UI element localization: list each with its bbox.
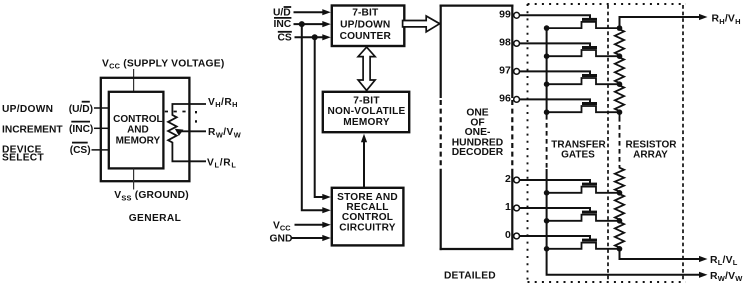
label DEVICE SELECT xyxy=(2,145,44,164)
junction bus 1 xyxy=(544,218,550,224)
decoder output 2 xyxy=(505,173,520,185)
hollow bus arrow counter to decoder xyxy=(403,16,440,32)
wire decoder 0 to gate xyxy=(520,236,590,239)
svg-text:UP/DOWN: UP/DOWN xyxy=(340,19,390,30)
transistor channel 2 xyxy=(547,187,620,193)
junction bus 99 xyxy=(544,25,550,31)
resistor array element 1 xyxy=(615,28,624,56)
junction tap 98 xyxy=(617,53,623,59)
resistor array element 5 xyxy=(615,193,624,221)
svg-text:VCC (SUPPLY VOLTAGE): VCC (SUPPLY VOLTAGE) xyxy=(102,58,224,70)
label 7-BIT NON-VOLATILE MEMORY xyxy=(328,95,406,128)
svg-text:ARRAY: ARRAY xyxy=(633,150,668,161)
label TRANSFER GATES xyxy=(551,139,606,160)
wire RH/VH output xyxy=(620,17,700,28)
transistor channel 98 xyxy=(547,50,620,56)
outer device box (GENERAL) xyxy=(101,78,190,181)
wire VSS ground xyxy=(133,169,135,190)
svg-text:CIRCUITRY: CIRCUITRY xyxy=(339,222,395,233)
svg-text:1: 1 xyxy=(505,201,511,213)
junction bus 2 xyxy=(544,190,550,196)
svg-text:COUNTER: COUNTER xyxy=(340,31,392,42)
dashed separator gates/array xyxy=(607,5,609,281)
svg-text:CS: CS xyxy=(278,32,292,43)
svg-text:GENERAL: GENERAL xyxy=(129,213,182,224)
svg-text:INCREMENT: INCREMENT xyxy=(2,124,63,135)
transistor gate 2 xyxy=(582,183,597,186)
svg-text:(U/D): (U/D) xyxy=(69,104,93,115)
wire CS down to store/recall xyxy=(315,37,324,197)
svg-text:7-BIT: 7-BIT xyxy=(352,8,379,19)
svg-text:DETAILED: DETAILED xyxy=(444,271,496,282)
transistor channel 97 xyxy=(547,78,620,84)
decoder output 98 xyxy=(499,36,519,48)
wire INC down to store/recall xyxy=(302,24,324,210)
pin (CS) xyxy=(70,143,91,156)
wiper arrow xyxy=(175,129,184,136)
svg-text:(INC): (INC) xyxy=(69,124,93,135)
wire U/D stub xyxy=(94,107,108,109)
pin CS (detailed) xyxy=(278,32,292,44)
dotted enclosure transfer gates + resistor array xyxy=(528,4,687,282)
decoder output 99 xyxy=(499,8,519,20)
label ONE OF ONE-HUNDRED DECODER xyxy=(452,107,504,158)
junction INC branch xyxy=(299,21,305,27)
wire CS stub xyxy=(92,149,109,151)
svg-text:99: 99 xyxy=(499,8,511,20)
junction bus 0 xyxy=(544,246,550,252)
transistor channel 0 xyxy=(547,243,620,249)
wire RW wiper xyxy=(181,130,206,132)
svg-text:GND: GND xyxy=(270,233,293,244)
one-of-one-hundred decoder box xyxy=(440,5,514,251)
wire INC stub xyxy=(94,127,108,129)
transistor gate 98 xyxy=(582,46,597,49)
wire decoder 98 to gate xyxy=(520,43,590,46)
svg-text:GATES: GATES xyxy=(561,150,595,161)
pin INC (detailed) xyxy=(274,18,292,30)
transistor gate 97 xyxy=(582,74,597,77)
wire store/recall to memory xyxy=(363,141,365,188)
svg-text:(CS): (CS) xyxy=(70,145,91,156)
wire VCC to store xyxy=(295,224,324,226)
wire decoder 1 to gate xyxy=(520,208,590,211)
label RESISTOR ARRAY xyxy=(626,139,678,160)
pin (U/D) xyxy=(69,102,93,115)
svg-text:96: 96 xyxy=(499,92,511,104)
svg-text:AND: AND xyxy=(127,125,149,136)
arrow RW/VW output xyxy=(699,272,708,278)
potentiometer resistor xyxy=(168,115,177,144)
svg-text:98: 98 xyxy=(499,36,511,48)
svg-text:0: 0 xyxy=(505,229,511,241)
svg-text:INC: INC xyxy=(274,19,292,30)
7-bit non-volatile memory box xyxy=(323,92,409,132)
junction tap 0 xyxy=(617,246,623,252)
wire RL/VL output xyxy=(620,249,700,259)
junction tap 1 xyxy=(617,218,623,224)
svg-text:2: 2 xyxy=(505,173,511,185)
store and recall control circuitry box xyxy=(332,188,404,246)
svg-text:NON-VOLATILE: NON-VOLATILE xyxy=(328,106,406,117)
wire VH terminal xyxy=(172,104,206,115)
transistor channel 1 xyxy=(547,215,620,221)
transistor gate 96 xyxy=(582,102,597,105)
wire INC to counter xyxy=(294,23,324,25)
svg-text:DECODER: DECODER xyxy=(452,147,504,158)
junction tap 96 xyxy=(617,109,623,115)
wire GND to store xyxy=(292,237,324,239)
resistor array element 4 xyxy=(615,167,624,193)
junction bus 96 xyxy=(544,109,550,115)
junction tap 2 xyxy=(617,190,623,196)
svg-text:SELECT: SELECT xyxy=(2,153,44,164)
resistor chain continuation (dashed) xyxy=(619,112,621,117)
transistor channel 99 xyxy=(547,22,620,28)
decoder output 0 xyxy=(505,229,520,241)
svg-text:CONTROL: CONTROL xyxy=(113,114,162,125)
wire VCC supply xyxy=(133,69,135,92)
svg-text:97: 97 xyxy=(499,64,511,76)
resistor array element 6 xyxy=(615,221,624,249)
label STORE AND RECALL CONTROL CIRCUITRY xyxy=(337,192,398,233)
resistor array element 2 xyxy=(615,56,624,84)
wire decoder 96 to gate xyxy=(520,99,590,102)
svg-text:7-BIT: 7-BIT xyxy=(353,95,380,106)
svg-text:MEMORY: MEMORY xyxy=(116,135,161,146)
wire U/D to counter xyxy=(294,11,324,13)
hollow double arrow counter-memory xyxy=(358,47,375,90)
label 7-BIT UP/DOWN COUNTER xyxy=(340,8,392,43)
svg-text:UP/DOWN: UP/DOWN xyxy=(2,104,53,115)
arrow RH/VH output xyxy=(699,14,708,20)
transistor gate 99 xyxy=(582,18,597,21)
dotted control path to wiper xyxy=(165,111,196,125)
junction bus 98 xyxy=(544,53,550,59)
svg-text:MEMORY: MEMORY xyxy=(343,117,390,128)
decoder output 97 xyxy=(499,64,519,76)
wire decoder 97 to gate xyxy=(520,71,590,74)
wiper bus wire xyxy=(546,28,548,115)
junction CS branch xyxy=(312,34,318,40)
dashed right edge of enclosure xyxy=(682,5,684,281)
resistor array element 3 xyxy=(615,84,624,112)
decoder output 1 xyxy=(505,201,520,213)
pin (INC) xyxy=(69,122,93,136)
decoder output 96 xyxy=(499,92,519,104)
pin U/D (detailed) xyxy=(273,7,291,19)
junction tap 97 xyxy=(617,81,623,87)
transistor gate 0 xyxy=(582,239,597,242)
junction tap 99 xyxy=(617,25,623,31)
wire VL terminal xyxy=(172,143,206,161)
label CONTROL AND MEMORY xyxy=(113,114,162,146)
control and memory box xyxy=(109,92,164,169)
wire decoder 2 to gate xyxy=(520,180,590,183)
7-bit up/down counter box xyxy=(332,6,405,47)
wire decoder 99 to gate xyxy=(520,15,590,18)
wire CS to counter xyxy=(295,36,324,38)
junction bus 97 xyxy=(544,81,550,87)
arrow RL/VL output xyxy=(699,256,708,262)
transistor channel 96 xyxy=(547,106,620,112)
transistor gate 1 xyxy=(582,211,597,214)
